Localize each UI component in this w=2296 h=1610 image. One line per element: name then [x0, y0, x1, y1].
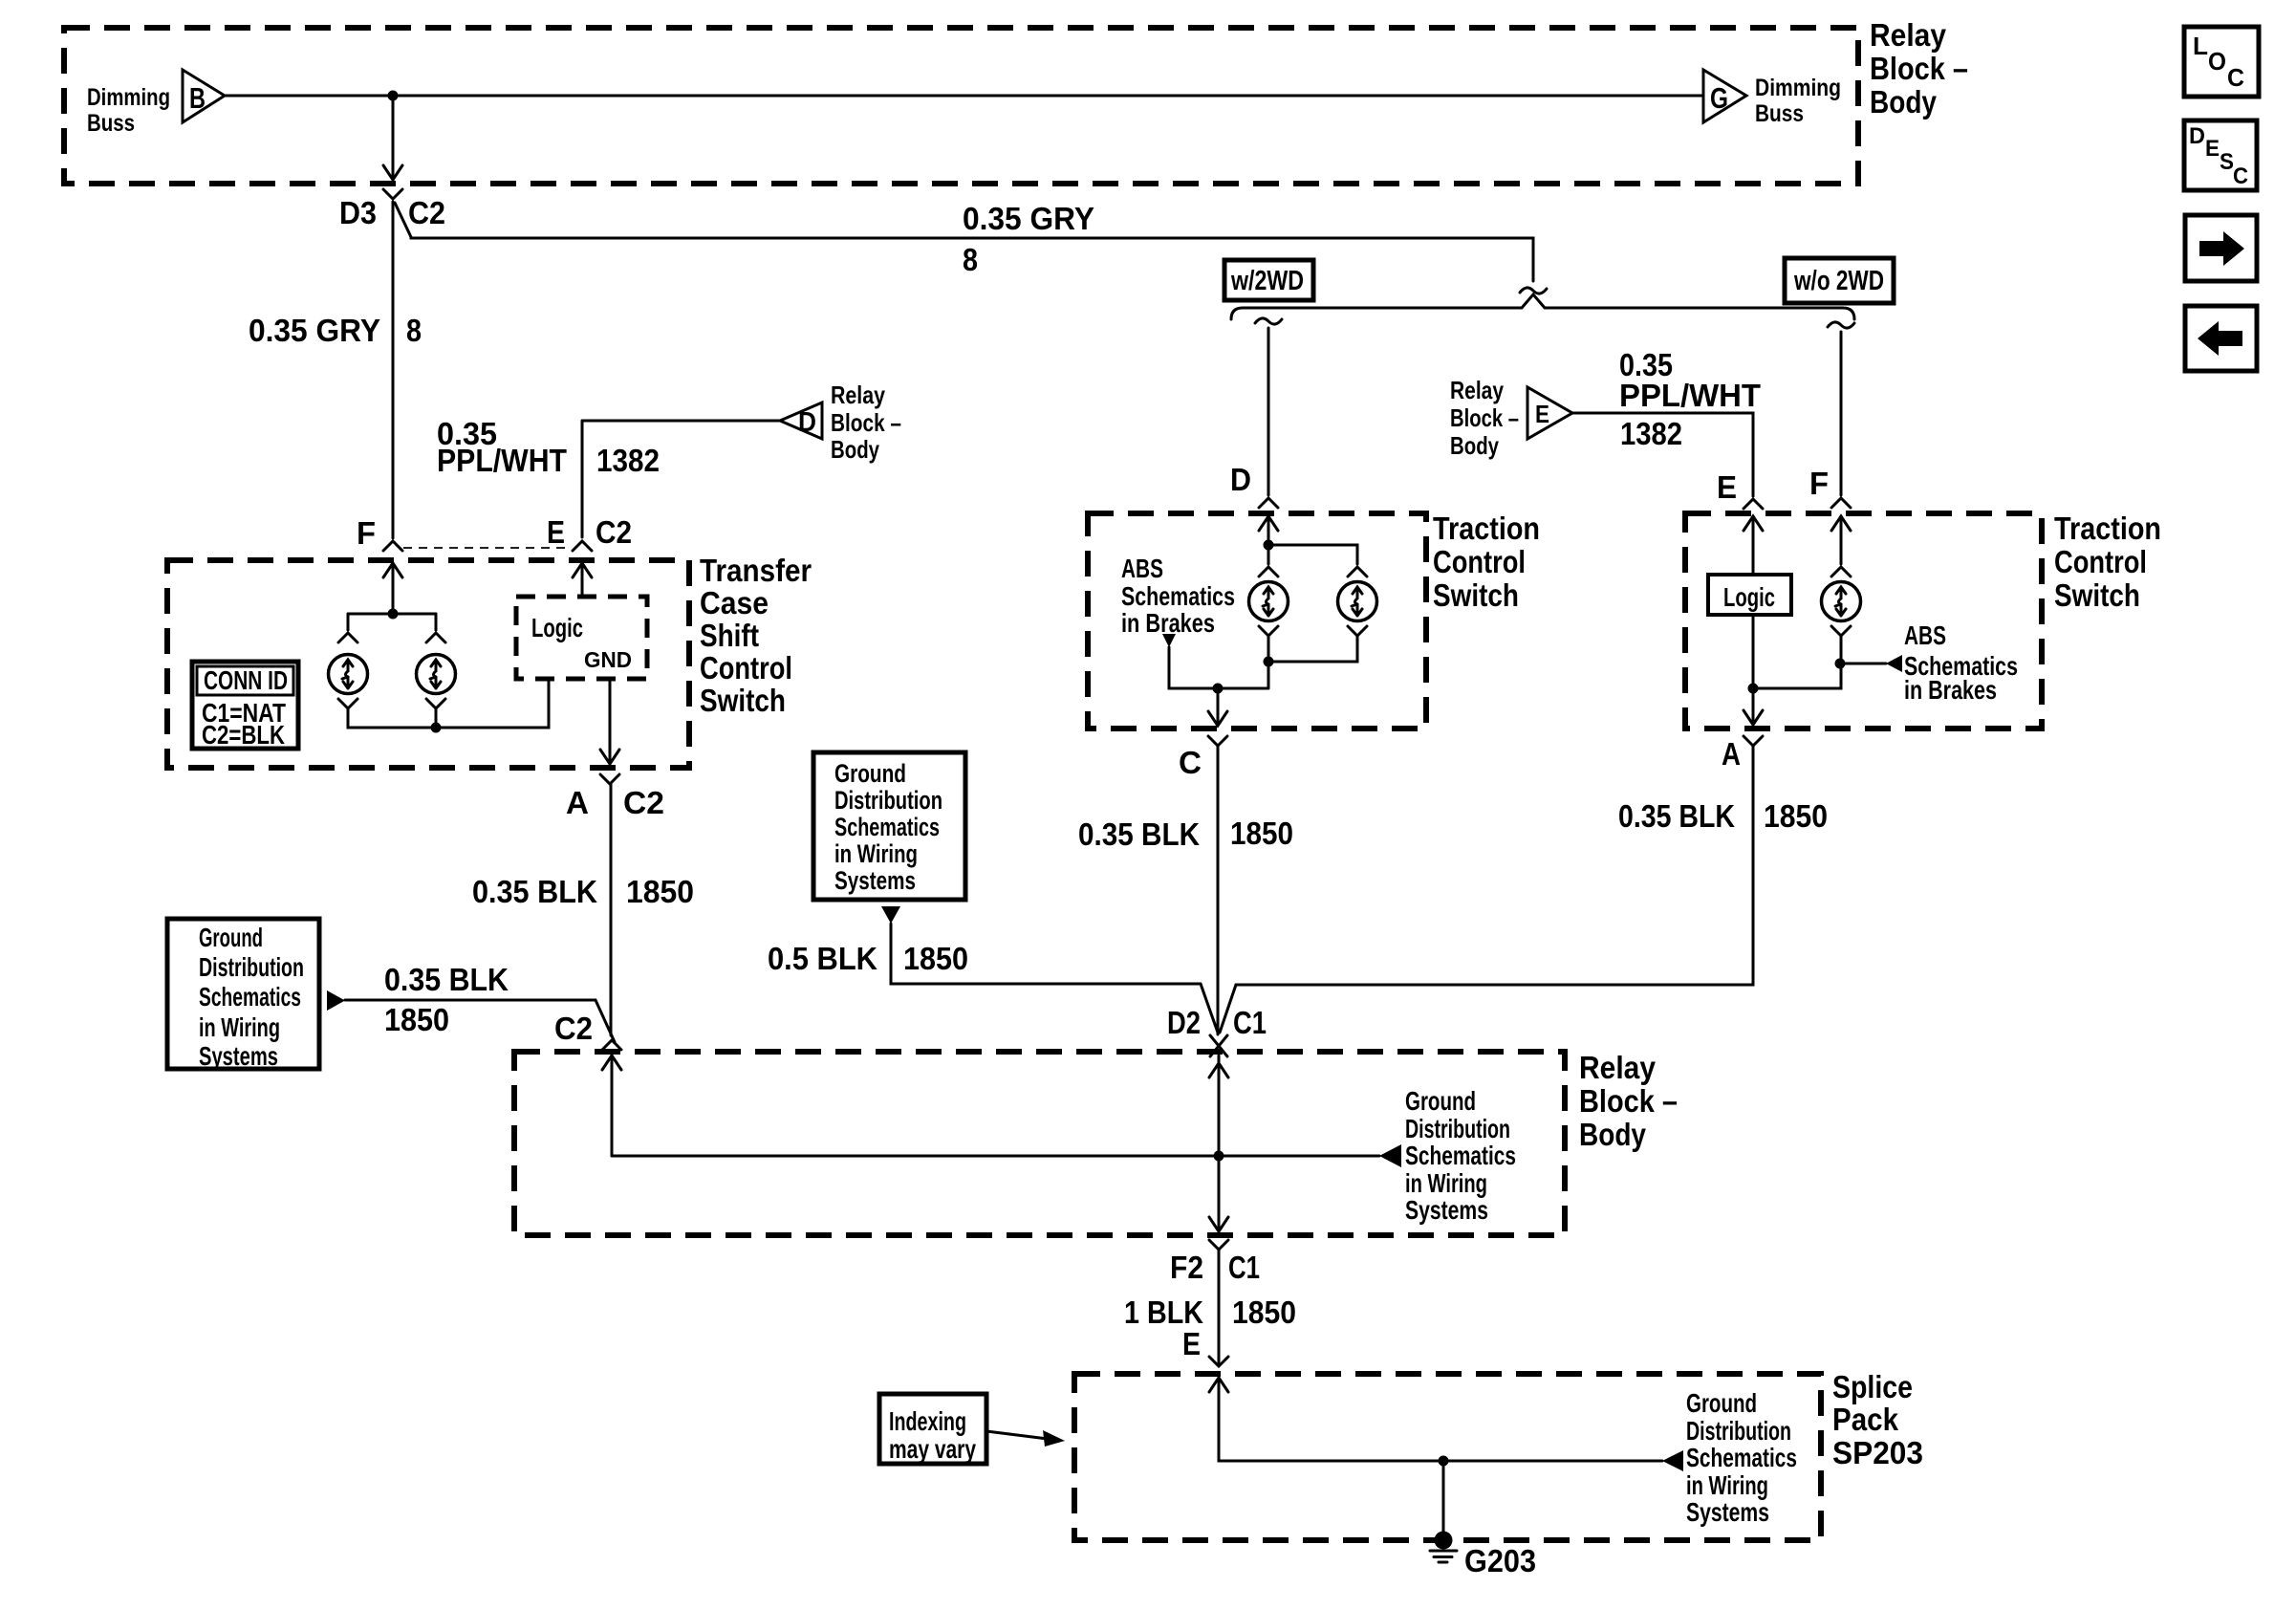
- indexing arrow: [986, 1431, 1048, 1439]
- svg-text:Relay: Relay: [1450, 376, 1504, 404]
- svg-text:in Brakes: in Brakes: [1121, 608, 1215, 638]
- svg-text:CONN ID: CONN ID: [204, 665, 288, 695]
- svg-text:C2: C2: [408, 195, 445, 230]
- svg-text:0.35 BLK: 0.35 BLK: [384, 962, 509, 997]
- svg-text:Dimming: Dimming: [1755, 75, 1841, 101]
- svg-text:F: F: [1809, 466, 1829, 501]
- svg-text:in Wiring: in Wiring: [834, 839, 918, 868]
- svg-text:Relay: Relay: [1870, 17, 1947, 53]
- wire: 1382 from triangle E to E connector: [1572, 413, 1753, 496]
- logic GND wire down to A: [1752, 615, 1755, 724]
- svg-text:in Wiring: in Wiring: [199, 1012, 280, 1042]
- DESC nav box: [2184, 120, 2257, 190]
- svg-text:D: D: [1230, 462, 1251, 497]
- transfer case shift control switch dashed box: [167, 560, 689, 768]
- svg-text:Body: Body: [831, 435, 879, 464]
- svg-text:C: C: [1179, 745, 1202, 780]
- svg-text:1850: 1850: [1232, 1295, 1296, 1330]
- connector pins F and E at transfer case switch: [383, 541, 402, 551]
- connector chevrons above lamps: [1259, 567, 1278, 577]
- break squiggle right branch: [1828, 322, 1854, 328]
- svg-text:F2: F2: [1170, 1250, 1203, 1285]
- label box w/2WD: [1224, 260, 1313, 300]
- svg-text:Control: Control: [2054, 544, 2147, 579]
- svg-text:E: E: [547, 514, 565, 550]
- ground distribution ref arrow (splice pack): [1662, 1450, 1683, 1471]
- triangle B (Dimming Buss): [183, 70, 225, 122]
- branch to right lamp: [1268, 545, 1357, 564]
- relay block - body (bottom) dashed box: [514, 1052, 1565, 1235]
- svg-text:1850: 1850: [384, 1002, 449, 1037]
- svg-text:Ground: Ground: [1686, 1388, 1757, 1418]
- wire: 0.35 BLK 1850 from A down and left: [1236, 746, 1753, 985]
- svg-text:B: B: [189, 81, 206, 115]
- GND pin wire down: [609, 679, 612, 763]
- arrows into box at E and F: [1744, 516, 1763, 531]
- ABS schematics ref (left switch): [1162, 634, 1176, 647]
- svg-text:Block –: Block –: [1870, 51, 1968, 86]
- svg-text:1 BLK: 1 BLK: [1124, 1295, 1203, 1330]
- connectors below lamps: [338, 699, 357, 708]
- lamp wire down to junction: [1753, 636, 1841, 688]
- svg-text:A: A: [1722, 736, 1741, 772]
- wire: left branch down to D: [1267, 328, 1270, 495]
- svg-text:C2: C2: [554, 1011, 593, 1046]
- exit junction and wire C: [1213, 684, 1224, 694]
- lamp common wire to logic: [348, 681, 549, 728]
- lamp left (transfer case): [329, 655, 368, 694]
- CONN ID table: [192, 662, 298, 749]
- svg-text:Systems: Systems: [1405, 1195, 1488, 1225]
- left arrow nav box: [2185, 306, 2257, 371]
- lamp left (traction control w/2WD): [1249, 582, 1289, 621]
- svg-text:Schematics: Schematics: [1686, 1443, 1797, 1472]
- svg-text:PPL/WHT: PPL/WHT: [1619, 378, 1761, 413]
- svg-text:Traction: Traction: [1433, 511, 1540, 546]
- wire: 1 BLK 1850 down to splice pack: [1218, 1250, 1221, 1363]
- lamp right (transfer case): [417, 655, 456, 694]
- connectors below lamps: [1259, 626, 1278, 636]
- svg-text:Indexing: Indexing: [889, 1406, 966, 1436]
- svg-text:Pack: Pack: [1832, 1402, 1899, 1437]
- svg-text:0.35 GRY: 0.35 GRY: [963, 201, 1094, 236]
- svg-text:Distribution: Distribution: [199, 952, 304, 982]
- ground distribution ref arrow (bottom box): [1379, 1144, 1401, 1167]
- connector D3/C2: [383, 189, 402, 199]
- traction control switch (w/2WD) dashed box: [1088, 513, 1426, 729]
- right arrow nav box: [2185, 215, 2257, 281]
- ground distribution schematics ref box (middle): [813, 752, 965, 900]
- connector chevron above lamp: [1831, 567, 1851, 577]
- svg-text:Traction: Traction: [2054, 511, 2161, 546]
- svg-text:PPL/WHT: PPL/WHT: [437, 443, 567, 478]
- wire 0.35 BLK 1850 to C2: [345, 1000, 615, 1042]
- svg-text:Body: Body: [1450, 431, 1499, 460]
- svg-text:0.5 BLK: 0.5 BLK: [768, 941, 877, 976]
- break squiggle at branch end: [1520, 288, 1547, 294]
- svg-text:Block –: Block –: [831, 408, 901, 437]
- svg-text:Ground: Ground: [199, 923, 263, 952]
- svg-text:Systems: Systems: [199, 1041, 278, 1071]
- svg-text:Ground: Ground: [834, 759, 906, 788]
- svg-text:C1: C1: [1228, 1250, 1260, 1285]
- junction node below D: [1264, 540, 1274, 551]
- wire: right branch down to F: [1840, 332, 1843, 495]
- svg-text:F: F: [357, 515, 376, 551]
- svg-text:1850: 1850: [1764, 798, 1828, 834]
- svg-text:1850: 1850: [1230, 816, 1293, 851]
- svg-text:Systems: Systems: [1686, 1497, 1769, 1527]
- svg-text:w/2WD: w/2WD: [1230, 266, 1304, 296]
- wire: 0.35 GRY 8 branch to right: [395, 203, 1533, 281]
- svg-text:E: E: [1535, 400, 1549, 428]
- svg-text:SP203: SP203: [1832, 1435, 1923, 1470]
- svg-text:C2: C2: [596, 514, 632, 550]
- logic box (solid): [1708, 575, 1791, 615]
- svg-text:ABS: ABS: [1904, 620, 1946, 650]
- connector chevrons above lamps: [338, 633, 357, 642]
- svg-text:0.35 BLK: 0.35 BLK: [472, 874, 597, 909]
- svg-text:E: E: [1182, 1326, 1201, 1361]
- svg-text:Ground: Ground: [1405, 1086, 1476, 1116]
- wire: 0.35 BLK 1850 from A/C2 down: [610, 784, 613, 1035]
- svg-text:Buss: Buss: [1755, 100, 1804, 127]
- svg-text:Distribution: Distribution: [1686, 1416, 1791, 1446]
- arrows into box at F and E: [383, 563, 402, 577]
- svg-text:Buss: Buss: [87, 110, 135, 137]
- svg-text:Splice: Splice: [1832, 1369, 1913, 1404]
- ABS schematics ref (right switch): [1840, 663, 1886, 665]
- svg-text:Schematics: Schematics: [199, 982, 301, 1012]
- svg-text:D3: D3: [339, 195, 377, 230]
- D2/C1 splice connector: [1220, 985, 1236, 1033]
- svg-text:S: S: [2220, 149, 2234, 175]
- svg-text:Body: Body: [1870, 84, 1938, 120]
- arrows into box tops: [602, 1055, 621, 1070]
- svg-text:G203: G203: [1464, 1543, 1536, 1578]
- svg-text:A: A: [566, 785, 589, 820]
- wire: 1382 from E connector up and right to triangle D: [582, 421, 780, 537]
- svg-text:Relay: Relay: [1579, 1050, 1657, 1085]
- junction node on dimming buss: [388, 91, 399, 101]
- break squiggle left branch: [1255, 318, 1282, 324]
- svg-text:C: C: [2227, 63, 2244, 92]
- svg-text:in Wiring: in Wiring: [1686, 1470, 1768, 1500]
- connector C2 into relay block: [602, 1040, 621, 1050]
- svg-text:in Brakes: in Brakes: [1904, 675, 1997, 705]
- wire 0.5 BLK 1850 down and right to D2/C1: [891, 924, 1218, 1033]
- svg-text:O: O: [2208, 47, 2226, 76]
- traction control switch (w/o 2WD) dashed box: [1685, 513, 2042, 729]
- svg-text:Systems: Systems: [834, 866, 916, 895]
- ref arrow (right-pointing): [327, 990, 345, 1011]
- svg-text:D: D: [798, 407, 816, 438]
- svg-text:1382: 1382: [596, 443, 660, 478]
- wire: 0.35 GRY 8 vertical (D3 to F): [392, 202, 395, 538]
- svg-text:Block –: Block –: [1579, 1083, 1678, 1119]
- ground G203: [1442, 1461, 1445, 1532]
- lamp common wiring: [1169, 636, 1357, 688]
- svg-text:Switch: Switch: [700, 683, 786, 718]
- LOC nav box: [2184, 27, 2259, 97]
- svg-text:w/o 2WD: w/o 2WD: [1793, 266, 1884, 296]
- svg-text:Transfer: Transfer: [700, 553, 812, 588]
- ground wire across box: [612, 1155, 1379, 1158]
- svg-text:G: G: [1710, 81, 1728, 115]
- svg-text:Control: Control: [1433, 544, 1526, 579]
- svg-text:Block –: Block –: [1450, 403, 1519, 432]
- svg-text:8: 8: [963, 242, 978, 277]
- logic box (dashed): [516, 597, 647, 679]
- indexing may vary note box: [879, 1394, 986, 1464]
- svg-text:Distribution: Distribution: [834, 786, 942, 815]
- svg-text:1382: 1382: [1620, 416, 1682, 451]
- svg-text:Distribution: Distribution: [1405, 1114, 1510, 1143]
- ref arrow (down-pointing): [881, 906, 900, 924]
- svg-text:ABS: ABS: [1121, 554, 1163, 583]
- svg-text:Case: Case: [700, 585, 769, 620]
- triangle D (Relay Block - Body): [780, 402, 822, 439]
- splice pack SP203 dashed box: [1074, 1374, 1821, 1540]
- svg-text:E: E: [2205, 136, 2220, 162]
- svg-text:E: E: [1717, 469, 1737, 505]
- svg-text:1850: 1850: [903, 941, 968, 976]
- svg-text:C2: C2: [623, 785, 664, 820]
- wire B to G: [225, 95, 1703, 98]
- thin dashed connector line F-E: [403, 547, 572, 549]
- svg-text:Schematics: Schematics: [1121, 581, 1235, 611]
- lamp (traction control w/o 2WD): [1822, 582, 1861, 621]
- ground distribution schematics ref box (left): [167, 919, 319, 1069]
- junction node under F: [388, 609, 399, 620]
- svg-text:Schematics: Schematics: [1405, 1141, 1516, 1170]
- svg-text:C: C: [2233, 163, 2248, 189]
- arrow into box at D: [1259, 516, 1278, 531]
- svg-text:Body: Body: [1579, 1117, 1647, 1152]
- brace spanning w/2WD and w/o 2WD: [1231, 294, 1854, 319]
- svg-text:D: D: [2189, 123, 2205, 149]
- svg-text:Switch: Switch: [1433, 577, 1519, 613]
- triangle G (Dimming Buss): [1703, 70, 1746, 122]
- svg-text:8: 8: [406, 313, 422, 348]
- svg-text:Dimming: Dimming: [87, 84, 170, 111]
- svg-text:Relay: Relay: [831, 381, 885, 409]
- svg-text:GND: GND: [584, 647, 632, 672]
- svg-text:C2=BLK: C2=BLK: [202, 720, 285, 750]
- svg-text:D2: D2: [1167, 1005, 1201, 1040]
- svg-text:Shift: Shift: [700, 618, 759, 653]
- svg-text:Schematics: Schematics: [834, 813, 940, 841]
- arrow into splice pack: [1209, 1378, 1228, 1392]
- svg-text:0.35 BLK: 0.35 BLK: [1078, 816, 1200, 852]
- label box w/o 2WD: [1785, 258, 1894, 303]
- svg-text:may vary: may vary: [889, 1434, 976, 1464]
- connector A/C2 below box: [600, 774, 619, 784]
- svg-text:0.35 BLK: 0.35 BLK: [1618, 798, 1735, 834]
- svg-text:C1: C1: [1233, 1005, 1267, 1040]
- connector F2/C1 below box: [1209, 1240, 1228, 1250]
- wires to both lamps: [348, 613, 436, 616]
- wire: drop from dimming buss to D3: [392, 96, 395, 178]
- svg-text:0.35 GRY: 0.35 GRY: [249, 313, 380, 348]
- svg-text:Control: Control: [700, 650, 792, 685]
- triangle E (Relay Block - Body): [1527, 387, 1572, 439]
- svg-text:Logic: Logic: [1723, 582, 1775, 612]
- svg-text:Logic: Logic: [531, 613, 583, 642]
- svg-text:L: L: [2193, 32, 2208, 60]
- svg-text:Switch: Switch: [2054, 577, 2140, 613]
- wire: 0.35 BLK 1850 from C down to D2/C1: [1217, 746, 1220, 1034]
- lamp right (traction control w/2WD): [1338, 582, 1377, 621]
- svg-text:in Wiring: in Wiring: [1405, 1168, 1487, 1198]
- relay block - body (top) dashed box: [64, 28, 1858, 184]
- svg-text:1850: 1850: [626, 874, 694, 909]
